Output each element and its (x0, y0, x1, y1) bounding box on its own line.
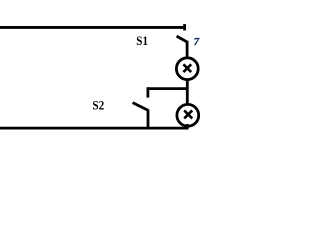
top feed wire (0, 26, 185, 29)
svg-text:S1: S1 (136, 33, 148, 48)
wire S2 to bottom (147, 110, 150, 130)
svg-text:S2: S2 (92, 97, 104, 112)
lamp L1 circle (176, 58, 198, 80)
wire S1 to lamp L1 (186, 41, 189, 59)
wire lamp L1 to lamp L2 (186, 79, 189, 105)
lamp L2 bottom stub (186, 124, 189, 129)
lamp L2 cross (184, 110, 192, 118)
top wire end terminal tick (183, 24, 186, 30)
lamp L2 circle (177, 104, 199, 126)
lamp L1 cross (183, 64, 191, 72)
svg-text:7: 7 (194, 36, 200, 48)
switch S2 blade (133, 103, 149, 111)
switch S1 blade (177, 36, 187, 42)
bottom return wire (0, 127, 188, 130)
S2 fixed contact stub (146, 87, 149, 97)
branch wire to S2 (147, 87, 188, 90)
